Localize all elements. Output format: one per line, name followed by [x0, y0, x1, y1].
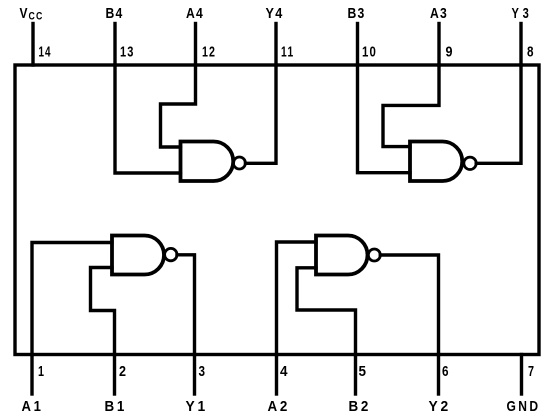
- wire Y2 gate2 output to pin6: [380, 255, 438, 355]
- NAND gate U1B body (bottom-right): [316, 236, 368, 275]
- svg-text:4: 4: [280, 363, 288, 380]
- svg-text:3: 3: [199, 363, 206, 380]
- svg-text:5: 5: [359, 363, 367, 380]
- wire Y3 pin8 to gate3 output: [476, 65, 521, 163]
- svg-text:B1: B1: [105, 398, 128, 415]
- pin 11 Y4 stub: [274, 24, 277, 66]
- IC package outline: [15, 65, 539, 355]
- pin 9 A3 stub: [437, 24, 440, 66]
- wire B3 pin10 to gate3 lower input: [358, 65, 411, 173]
- wire A3 pin9 hook to gate3 upper input: [383, 65, 439, 147]
- svg-text:2: 2: [119, 363, 126, 380]
- svg-text:B4: B4: [106, 5, 124, 22]
- pin 4 A2 stub: [275, 355, 278, 395]
- pin 10 B3 stub: [356, 24, 359, 66]
- svg-text:B3: B3: [348, 5, 366, 22]
- pin 7 GND stub: [520, 355, 523, 395]
- pin 2 B1 stub: [113, 355, 116, 395]
- svg-text:14: 14: [39, 43, 52, 60]
- svg-text:V: V: [20, 5, 28, 22]
- NAND gate U1D body (top-left): [181, 142, 234, 182]
- svg-text:A1: A1: [22, 398, 44, 415]
- svg-text:1: 1: [38, 363, 44, 380]
- pin 13 B4 stub: [113, 24, 116, 66]
- svg-text:9: 9: [446, 43, 453, 60]
- svg-text:6: 6: [442, 363, 449, 380]
- gate U1B output bubble: [368, 249, 380, 261]
- svg-text:11: 11: [281, 43, 295, 60]
- wire Y4 pin11 to gate4 output: [246, 65, 277, 163]
- NAND gate U1A body (bottom-left): [112, 236, 164, 275]
- NAND gate U1C body (top-right): [410, 142, 462, 182]
- pin 12 A4 stub: [194, 24, 197, 66]
- svg-text:Y2: Y2: [429, 398, 452, 415]
- gate U1A output bubble: [165, 248, 177, 260]
- pin 8 Y3 stub: [519, 24, 522, 66]
- wire B4 pin13 to gate4 lower input: [115, 65, 181, 173]
- wire B1 pin2 hook to gate1 lower input: [91, 268, 115, 355]
- svg-text:Y4: Y4: [266, 5, 284, 22]
- wire B2 pin5 hook to gate2 lower input: [297, 268, 356, 355]
- svg-text:Y3: Y3: [512, 5, 533, 22]
- pin 3 Y1 stub: [193, 355, 196, 395]
- gate U1C output bubble: [464, 157, 476, 169]
- svg-text:CC: CC: [29, 11, 44, 23]
- pin 5 B2 stub: [354, 355, 357, 395]
- wire Y1 gate1 output to pin3: [177, 255, 195, 355]
- svg-text:13: 13: [120, 43, 135, 60]
- svg-text:A3: A3: [430, 5, 448, 22]
- svg-text:A2: A2: [268, 398, 291, 415]
- wire A4 pin12 hook to gate4 upper input: [161, 65, 196, 147]
- wire A1 pin1 to gate1 upper input: [32, 243, 112, 355]
- wire A2 pin4 to gate2 upper input: [277, 242, 317, 355]
- svg-text:10: 10: [362, 43, 377, 60]
- svg-text:A4: A4: [186, 5, 204, 22]
- svg-text:8: 8: [527, 43, 534, 60]
- svg-text:B2: B2: [349, 398, 372, 415]
- pin 14 Vcc top stub: [31, 24, 34, 66]
- svg-text:Y1: Y1: [186, 398, 209, 415]
- pin 1 A1 bottom stub: [30, 355, 33, 395]
- gate U1D output bubble: [233, 157, 245, 169]
- svg-text:7: 7: [528, 363, 534, 380]
- svg-text:12: 12: [202, 43, 216, 60]
- svg-text:GND: GND: [507, 398, 541, 415]
- pin 6 Y2 stub: [437, 355, 440, 395]
